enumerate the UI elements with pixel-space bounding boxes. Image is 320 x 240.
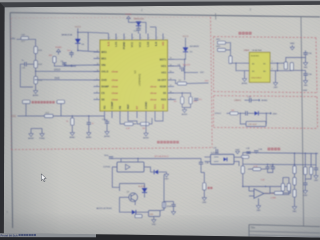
resistor R22 [141, 122, 150, 125]
resistor R40 vertical [304, 167, 307, 175]
LED D11 [255, 111, 259, 115]
ground below C20 [104, 130, 110, 139]
wire bottom right block [283, 187, 291, 194]
ground right col2 [303, 189, 308, 198]
wire RX2 down [60, 104, 62, 117]
resistor R28 vertical [203, 183, 206, 190]
wires C33 loop [240, 113, 246, 124]
capacitor C9 [181, 97, 184, 104]
wires U10 [120, 159, 122, 163]
capacitor C20 [102, 119, 109, 123]
wire LED right [259, 112, 269, 114]
ground C37 [171, 210, 175, 215]
wire BST node down [184, 59, 186, 80]
title block bottom line [249, 235, 320, 237]
diode D13 [154, 170, 158, 174]
wires SR [226, 43, 231, 50]
ground below R28 [202, 196, 207, 205]
red dashed box main left [10, 18, 12, 150]
wires vcc cluster [54, 63, 71, 66]
wire R29 top [164, 201, 174, 203]
screen left shading [4, 7, 60, 237]
capacitor C16b [194, 99, 202, 101]
optocoupler U10 body [117, 162, 144, 172]
ground below C30 [305, 58, 307, 61]
wires Q3 [120, 196, 129, 198]
wire R34 down [242, 174, 244, 187]
resistor R21 [125, 122, 134, 125]
wire U9 left gnd [244, 71, 246, 77]
capacitor C37 [171, 205, 175, 207]
sheet top border [10, 13, 320, 17]
capacitor C50 [67, 50, 74, 54]
wire R28 to gnd [203, 190, 205, 196]
resistor R45 [275, 191, 284, 194]
testpoint RX1 [23, 100, 31, 103]
wire CS1 [18, 115, 45, 117]
ground TL431 [256, 204, 261, 213]
transistor Q3 [129, 193, 138, 202]
feedback box C33 [246, 121, 266, 126]
sheet inner vertical border [301, 17, 304, 226]
resistor R6 [178, 82, 187, 85]
capacitor C22 [87, 123, 94, 125]
ground U9 right [275, 71, 277, 81]
optocoupler U11 body [211, 154, 235, 164]
wires U9 right [278, 62, 286, 64]
IC U2 top pins [106, 34, 164, 50]
resistor R8 10R [53, 57, 56, 63]
wire mid rail [243, 186, 291, 188]
bottom bezel [0, 234, 320, 240]
ground GND D13 [164, 172, 169, 181]
label sampling (chinese red) [208, 187, 213, 189]
resistor R37 vertical [293, 166, 296, 174]
sheet ruler tick [215, 13, 217, 19]
wire right vertical lower-left [160, 175, 164, 211]
red dashed box B bottom [214, 126, 318, 129]
wire to R33 [227, 112, 231, 114]
resistor R46 vertical [281, 184, 284, 192]
ground below C22 [86, 131, 92, 140]
red dashed box A left [213, 37, 215, 92]
resistor R31 vertical [284, 62, 287, 69]
vertical rail right [294, 153, 296, 166]
capacitor C41 right edge [314, 168, 318, 170]
wires D15 row [124, 211, 132, 213]
resistor R17 51K [21, 35, 29, 40]
ground below R25 [70, 131, 76, 140]
testpoint RX2 [57, 100, 65, 103]
red dashed box main bottom [11, 148, 212, 150]
wire R43 to ground [35, 84, 37, 89]
resistor R42 [34, 61, 37, 68]
box U12 [149, 211, 161, 217]
label main circuit (chinese) [157, 141, 179, 144]
wires C9 C10 [168, 93, 183, 97]
TL431 U13 [254, 189, 264, 199]
capacitor C39 [303, 183, 307, 185]
capacitor C39 top [254, 149, 263, 152]
left bezel [0, 2, 5, 233]
title block inner line [249, 231, 320, 233]
red dashed box main right [211, 17, 213, 148]
wire feedback top rail [242, 153, 244, 158]
capacitor C34 [303, 74, 312, 77]
ground AGND pair left [28, 132, 34, 141]
vertical rail right2 [304, 153, 306, 167]
resistor R25 vertical [71, 118, 74, 125]
IC U2 bottom pins [102, 101, 164, 118]
IC U2 right pins [150, 57, 174, 101]
red dashed box B left [213, 96, 215, 128]
wires TL431 [249, 190, 254, 192]
wire R39 gnd [294, 197, 296, 205]
IC U9 pins [243, 62, 249, 64]
capacitor C32 [246, 111, 248, 115]
ground AGND U9 [242, 77, 248, 86]
wire rail mid right [243, 163, 316, 166]
wire D5 to BST pin [168, 52, 186, 60]
top bezel [0, 1, 320, 7]
ground right col [292, 205, 297, 214]
red dashed box main top [11, 17, 211, 18]
capacitor C30 [303, 53, 312, 55]
capacitor C24 [104, 155, 113, 159]
wire R38 down [294, 185, 296, 190]
wire R6 right [187, 82, 209, 85]
wire top lower-left [121, 158, 160, 160]
resistor R34 vertical [241, 166, 244, 174]
wires D14 [144, 184, 146, 189]
red dashed box B right [316, 97, 319, 129]
wires top cluster [129, 19, 133, 23]
wire C32 to LED [247, 112, 254, 114]
label voltage feedback (chinese) [268, 148, 281, 151]
status strip [0, 233, 96, 237]
ground AGND below IC [143, 131, 149, 140]
power arrow GND boxB [269, 112, 272, 114]
wire CS main [53, 115, 105, 117]
capacitor C38 stub [248, 152, 250, 154]
title block outer [249, 225, 320, 227]
resistor R41 [34, 47, 37, 54]
wire VCC node to pin [78, 51, 100, 53]
wires second row [282, 178, 284, 184]
diode D15 [132, 210, 136, 214]
resistor R30 vertical [229, 56, 232, 64]
ground lower-left [152, 218, 157, 227]
IC U2 LM5046 body [100, 40, 168, 111]
svg-text:Protel 99 Sch: Protel 99 Sch [1, 233, 18, 237]
wires below IC [120, 118, 125, 124]
capacitor C6 [61, 61, 67, 64]
wire U10 left loop [112, 167, 119, 187]
power arrow AGND boxB [257, 99, 260, 101]
resistor R29 vertical [162, 202, 165, 208]
ground AGND right of IC [182, 108, 188, 117]
wire left stub TL431 [248, 187, 250, 192]
wire RX1 down [25, 104, 27, 117]
resistor R48 [242, 155, 249, 158]
wire D9 down [77, 43, 79, 50]
wires U11 [205, 156, 211, 158]
resistor R44 vertical [310, 167, 313, 175]
wire C40 left down [20, 64, 33, 87]
red dashed box A right [316, 38, 317, 93]
varistor VZ1 [135, 215, 142, 218]
wire to right edge [286, 58, 306, 63]
wire R37-R38 [294, 174, 296, 178]
mouse cursor [41, 174, 46, 182]
capacitor C42 [271, 167, 275, 169]
bezel top highlight [0, 0, 320, 2]
resistor R47 vertical [287, 184, 290, 192]
wire C36 down [201, 173, 204, 183]
screen bottom shading [0, 212, 320, 238]
wire VREF2 row [245, 99, 250, 101]
sheet left border [10, 13, 12, 228]
label charge current (chinese red) [32, 101, 55, 104]
wire top rail to IC [88, 31, 108, 34]
wire UVLO [36, 70, 100, 72]
IC U9 isolation amp body [249, 52, 270, 82]
capacitor C10 [189, 97, 192, 104]
resistor R43 [34, 77, 37, 84]
label signal isolation (chinese) [239, 32, 252, 35]
diode inside U11 [224, 157, 228, 161]
IC U2 left pins [94, 50, 119, 102]
wire R42-R43 [35, 68, 37, 77]
wire VIN [17, 38, 22, 40]
resistor R39 vertical [293, 190, 296, 198]
wire VCC node up-right [87, 32, 89, 51]
wire R33 to C32 [238, 112, 246, 114]
wire OVD [36, 79, 100, 81]
wire C40 right [27, 63, 34, 65]
ground AGND chain [33, 89, 39, 98]
ground right edge [314, 174, 319, 183]
capacitor C40 [22, 60, 27, 66]
wires right col2 [304, 175, 306, 180]
ground below C34 [303, 79, 308, 88]
wire R30 to U9 [231, 62, 244, 64]
ground PGND pair left [39, 132, 45, 141]
red dashed box A top [214, 37, 317, 38]
wire R17 to chain [29, 39, 36, 46]
red dashed box A bottom [214, 92, 318, 93]
resistor R32 vertical [290, 63, 293, 71]
wire cluster to VIN pin [64, 65, 100, 66]
red dashed box B top [214, 96, 318, 97]
wire R41-R42 [35, 54, 37, 61]
capacitor C40 [265, 165, 274, 168]
wire HS1 to R6 [174, 80, 178, 84]
capacitor C36 [199, 162, 210, 164]
capacitor C14 [134, 28, 141, 32]
resistor R24 [45, 114, 54, 117]
resistor R38 vertical [293, 178, 296, 186]
